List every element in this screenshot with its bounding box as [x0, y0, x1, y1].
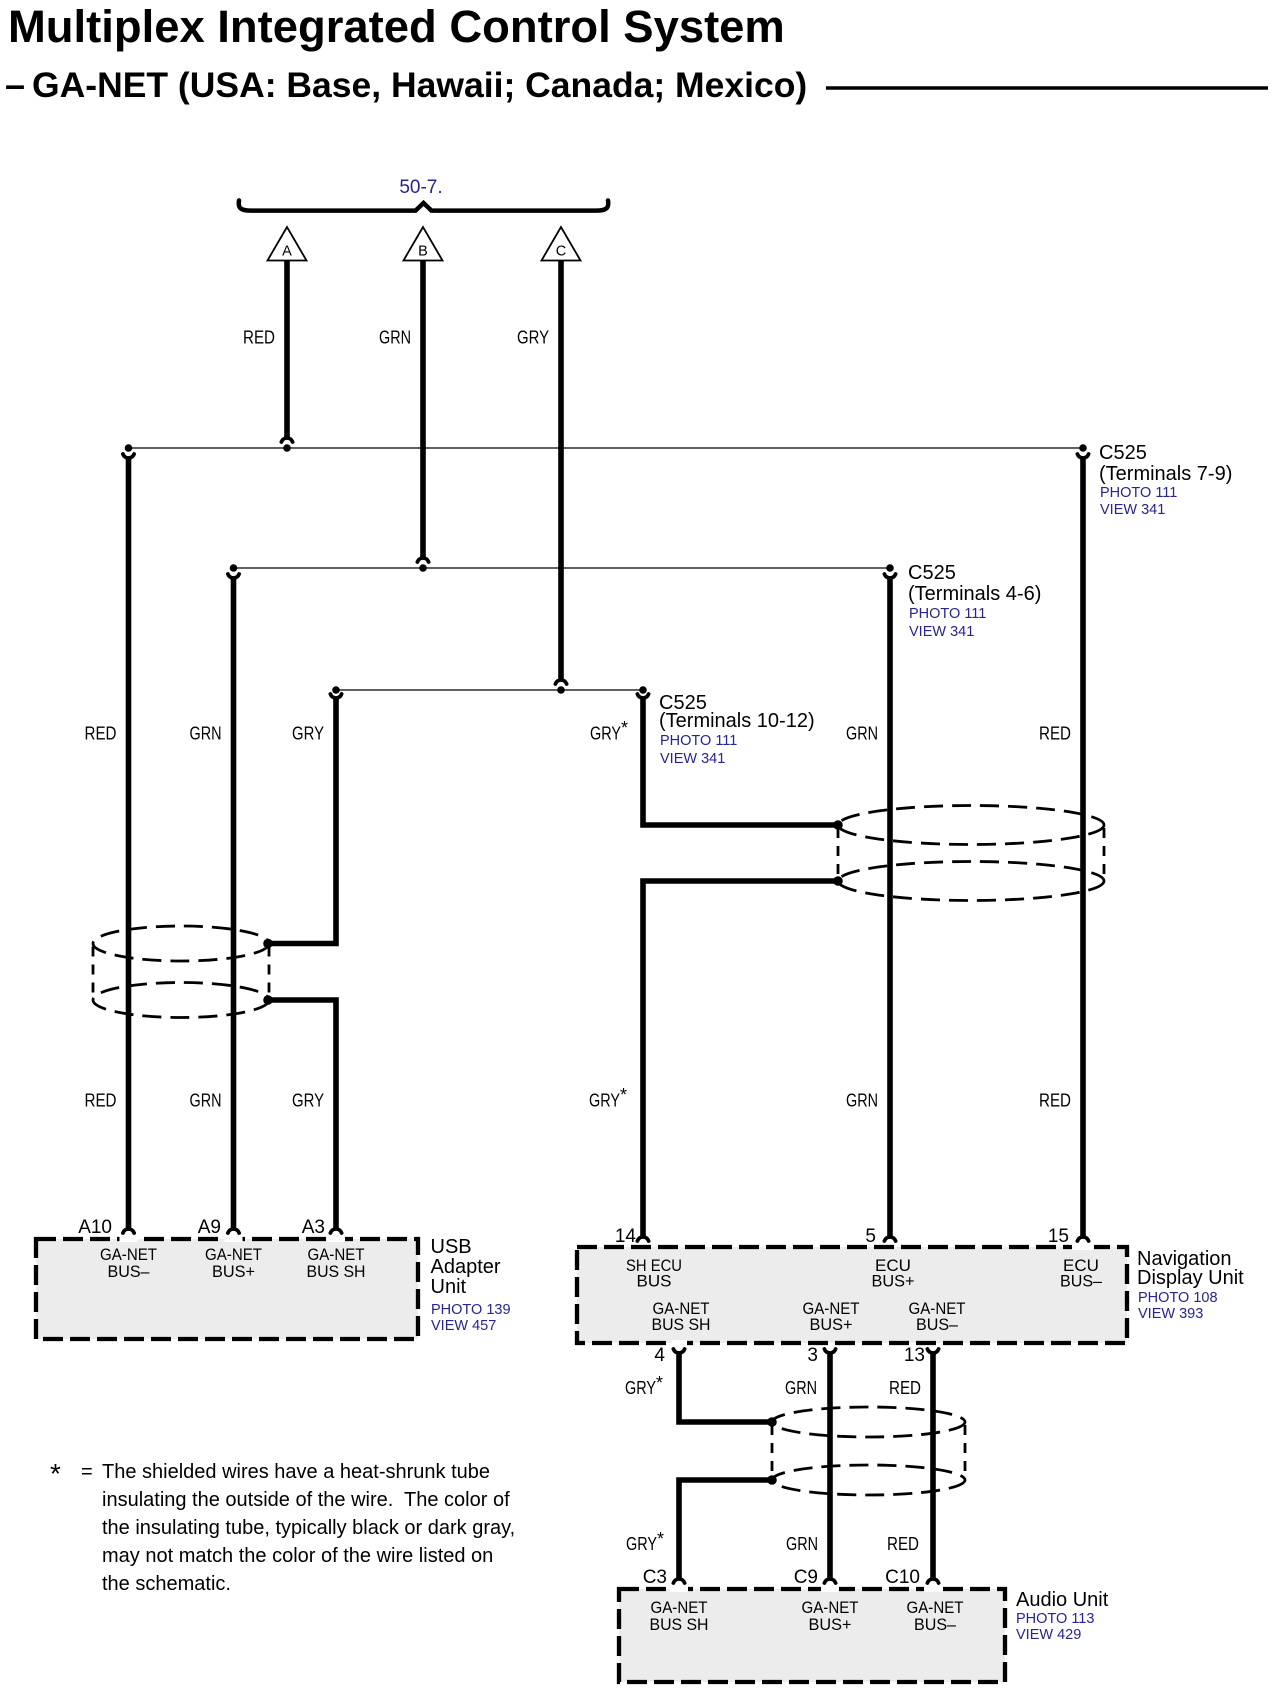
svg-text:*: * [656, 1373, 663, 1393]
audio unit pin C9 GA-NET BUS+ [802, 1598, 859, 1634]
wire GRN from connector B down to bus line 2 [417, 261, 428, 563]
svg-text:*: * [657, 1529, 664, 1549]
svg-text:Multiplex Integrated Control S: Multiplex Integrated Control System [8, 1, 785, 52]
svg-text:Adapter: Adapter [431, 1256, 501, 1278]
svg-text:(Terminals 7-9): (Terminals 7-9) [1099, 463, 1232, 485]
wire label GRN (lower right) [846, 1091, 878, 1111]
junction dot C on bus line 3 [557, 686, 565, 694]
pin A3 label [302, 1217, 325, 1238]
svg-text:VIEW 341: VIEW 341 [660, 751, 725, 767]
svg-text:C3: C3 [643, 1567, 667, 1588]
wire RED left from bus line 1 to USB adapter unit pin A10 [123, 454, 134, 1233]
pin 13 label [904, 1345, 925, 1366]
junction dot GRY* at right shield top [833, 820, 843, 830]
svg-text:RED: RED [1039, 1091, 1071, 1111]
svg-text:VIEW 393: VIEW 393 [1138, 1306, 1203, 1322]
wire label GRY (below triangle C) [517, 328, 549, 348]
svg-text:GRN: GRN [190, 724, 222, 744]
wire RED from navigation pin 13 to audio unit pin C10 [927, 1349, 938, 1583]
svg-text:PHOTO 111: PHOTO 111 [660, 733, 737, 749]
wire label GRN (lower left) [190, 1091, 222, 1111]
navigation display unit box [577, 1244, 1127, 1346]
svg-text:*: * [620, 1085, 627, 1105]
wire GRY* shielded from bus line 3 to right shield top [637, 694, 836, 825]
navigation pin 15 ECU BUS– [1060, 1256, 1103, 1291]
svg-text:(Terminals 4-6): (Terminals 4-6) [908, 583, 1041, 605]
junction dot GRY at left shield bottom [263, 995, 273, 1005]
svg-text:C525: C525 [908, 562, 956, 584]
svg-text:14: 14 [615, 1226, 637, 1247]
shield (heat-shrunk tube) around right GRN and RED wires [838, 806, 1104, 901]
connector triangle A [268, 227, 307, 261]
bus line 3 (C525 terminals 10-12) [336, 689, 643, 691]
wire GRY left from bus line 3 to left shield top [268, 694, 342, 944]
connector triangle C [542, 227, 581, 261]
svg-text:RED: RED [1039, 724, 1071, 744]
svg-text:13: 13 [904, 1345, 925, 1366]
svg-text:BUS–: BUS– [916, 1315, 959, 1334]
svg-text:C9: C9 [794, 1567, 818, 1588]
svg-text:GRN: GRN [846, 724, 878, 744]
svg-text:BUS+: BUS+ [810, 1315, 853, 1334]
svg-text:RED: RED [887, 1534, 919, 1554]
svg-text:BUS+: BUS+ [809, 1615, 852, 1634]
svg-text:BUS–: BUS– [914, 1615, 957, 1634]
wire label GRN (above audio unit) [786, 1534, 818, 1554]
junction dot A on bus line 1 [283, 444, 291, 452]
wire GRN from navigation pin 3 to audio unit pin C9 [824, 1349, 835, 1583]
svg-text:C: C [556, 244, 566, 260]
svg-text:GRY: GRY [292, 724, 324, 744]
navigation pin 3 GA-NET BUS+ [803, 1299, 860, 1334]
svg-text:A: A [282, 244, 292, 260]
pin C9 label [794, 1567, 818, 1588]
svg-text:Unit: Unit [431, 1276, 467, 1298]
wire GRY from connector C down to bus line 3 [555, 261, 566, 685]
svg-text:GA-NET (USA: Base, Hawaii; Can: GA-NET (USA: Base, Hawaii; Canada; Mexic… [32, 65, 807, 105]
svg-text:GRY: GRY [517, 328, 549, 348]
svg-text:A9: A9 [198, 1217, 221, 1238]
svg-text:GRY: GRY [589, 1091, 620, 1111]
wire label GRN (upper left) [190, 724, 222, 744]
svg-text:BUS–: BUS– [108, 1262, 151, 1281]
svg-text:PHOTO 111: PHOTO 111 [1100, 485, 1177, 501]
wire label RED (below triangle A) [243, 328, 275, 348]
svg-text:RED: RED [243, 328, 275, 348]
wire label GRY (lower left) [292, 1091, 324, 1111]
svg-text:GRN: GRN [846, 1091, 878, 1111]
svg-text:BUS SH: BUS SH [307, 1262, 366, 1281]
node right end of bus line 2 [886, 564, 894, 572]
node left end of bus line 1 [125, 444, 133, 452]
svg-text:GRY: GRY [590, 724, 621, 744]
wire GRY* from right shield bottom to navigation display unit pin 14 [637, 881, 838, 1241]
svg-text:VIEW 429: VIEW 429 [1016, 1627, 1081, 1643]
svg-text:PHOTO 111: PHOTO 111 [909, 606, 986, 622]
bus line 2 (C525 terminals 4-6) [234, 567, 891, 569]
svg-text:C525: C525 [1099, 442, 1147, 464]
node right end of bus line 1 [1079, 444, 1087, 452]
brace over connectors A B C [239, 201, 609, 211]
svg-text:=: = [81, 1461, 93, 1483]
svg-text:C10: C10 [885, 1567, 920, 1588]
svg-text:3: 3 [807, 1345, 818, 1366]
page reference label 50-7. [399, 177, 442, 198]
svg-text:*: * [621, 718, 628, 738]
wire label GRY* (upper right) [590, 718, 628, 744]
svg-text:4: 4 [654, 1345, 665, 1366]
wire label GRY* (above audio unit) [626, 1529, 664, 1554]
pin A10 label [78, 1217, 112, 1238]
junction dot GRY* at right shield bottom [833, 876, 843, 886]
svg-text:B: B [418, 244, 428, 260]
junction dot GRY at left shield top [263, 939, 273, 949]
audio unit pin C10 GA-NET BUS– [907, 1598, 964, 1634]
navigation pin 14 SH ECU BUS [626, 1256, 682, 1291]
wire label GRY (upper left) [292, 724, 324, 744]
svg-text:RED: RED [85, 724, 117, 744]
svg-text:The shielded wires have a heat: The shielded wires have a heat-shrunk tu… [102, 1461, 490, 1483]
junction dot GRY* at lower shield top [767, 1417, 777, 1427]
wire label GRN (below triangle B) [379, 328, 411, 348]
svg-text:BUS SH: BUS SH [650, 1615, 709, 1634]
svg-text:the schematic.: the schematic. [102, 1573, 231, 1595]
bus line 1 (C525 terminals 7-9) [129, 447, 1084, 449]
svg-text:RED: RED [85, 1091, 117, 1111]
svg-text:(Terminals 10-12): (Terminals 10-12) [659, 710, 815, 732]
wire GRY* from lower shield bottom to audio unit pin C3 [673, 1480, 772, 1583]
navigation pin 5 ECU BUS+ [872, 1256, 915, 1291]
svg-text:*: * [50, 1458, 61, 1489]
connector label C525 (Terminals 4-6) with PHOTO 111 VIEW 341 [908, 562, 1041, 640]
svg-text:A10: A10 [78, 1217, 112, 1238]
svg-text:GRN: GRN [785, 1378, 817, 1398]
shield (heat-shrunk tube) around left RED and GRN wires [93, 926, 269, 1018]
navigation display unit name label [1137, 1248, 1244, 1322]
svg-text:GRY: GRY [626, 1534, 657, 1554]
svg-text:VIEW 457: VIEW 457 [431, 1318, 496, 1334]
audio unit box [619, 1586, 1005, 1682]
subtitle: GA-NET (USA: Base, Hawaii; Canada; Mexico) [5, 64, 807, 105]
USB adapter unit box [36, 1236, 418, 1339]
shield (heat-shrunk tube) around lower GRN and RED wires [772, 1407, 965, 1495]
svg-text:VIEW 341: VIEW 341 [909, 624, 974, 640]
wire GRY from left shield bottom to USB adapter unit pin A3 [268, 1000, 342, 1233]
svg-text:RED: RED [889, 1378, 921, 1398]
svg-text:50-7.: 50-7. [399, 177, 442, 198]
svg-text:GRN: GRN [190, 1091, 222, 1111]
USB adapter unit pin A9 GA-NET BUS+ [205, 1245, 262, 1281]
svg-text:–: – [5, 64, 25, 105]
pin C10 label [885, 1567, 920, 1588]
connector label C525 (Terminals 7-9) with PHOTO 111 VIEW 341 [1099, 442, 1232, 518]
navigation pin 4 GA-NET BUS SH [652, 1299, 711, 1334]
svg-text:BUS+: BUS+ [212, 1262, 255, 1281]
svg-text:may not match the color of the: may not match the color of the wire list… [102, 1545, 493, 1567]
svg-text:GRN: GRN [786, 1534, 818, 1554]
audio unit name label [1016, 1589, 1109, 1643]
node right end of bus line 3 [639, 686, 647, 694]
pin 5 label [865, 1226, 876, 1247]
svg-text:PHOTO 139: PHOTO 139 [431, 1302, 511, 1318]
pin 4 label [654, 1345, 665, 1366]
USB adapter unit name label [431, 1236, 511, 1334]
wire label RED (above audio unit) [887, 1534, 919, 1554]
node left end of bus line 2 [230, 564, 238, 572]
svg-text:15: 15 [1048, 1226, 1069, 1247]
svg-text:the insulating tube, typically: the insulating tube, typically black or … [102, 1517, 515, 1539]
connector triangle B [404, 227, 443, 261]
wire label RED (lower left) [85, 1091, 117, 1111]
header rule line [826, 86, 1268, 89]
USB adapter unit pin A10 GA-NET BUS– [100, 1245, 157, 1281]
connector label C525 (Terminals 10-12) with PHOTO 111 VIEW 341 [659, 692, 815, 767]
pin 3 label [807, 1345, 818, 1366]
wire label GRY* (lower right) [589, 1085, 627, 1111]
junction dot B on bus line 2 [419, 564, 427, 572]
wire label RED (lower right) [1039, 1091, 1071, 1111]
svg-text:PHOTO 108: PHOTO 108 [1138, 1290, 1218, 1306]
svg-text:BUS+: BUS+ [872, 1272, 915, 1291]
svg-text:Display Unit: Display Unit [1137, 1267, 1244, 1289]
wire GRN right from bus line 2 to navigation display unit pin 5 [884, 574, 895, 1241]
wire label GRN (below navigation) [785, 1378, 817, 1398]
pin A9 label [198, 1217, 221, 1238]
svg-text:BUS: BUS [637, 1272, 672, 1291]
svg-text:BUS–: BUS– [1060, 1272, 1103, 1291]
svg-text:BUS SH: BUS SH [652, 1315, 711, 1334]
svg-text:GRY: GRY [625, 1378, 656, 1398]
wire label RED (upper right) [1039, 724, 1071, 744]
wire GRN left from bus line 2 to USB adapter unit pin A9 [228, 574, 239, 1233]
pin 14 label [615, 1226, 637, 1247]
svg-text:USB: USB [431, 1236, 472, 1258]
svg-text:A3: A3 [302, 1217, 325, 1238]
node left end of bus line 3 [332, 686, 340, 694]
wire RED from connector A down to bus line 1 [281, 261, 292, 443]
pin C3 label [643, 1567, 667, 1588]
svg-text:PHOTO 113: PHOTO 113 [1016, 1611, 1094, 1627]
footnote about shielded wire insulating tube color [50, 1458, 515, 1595]
wire label GRN (upper right) [846, 724, 878, 744]
wire label RED (upper left) [85, 724, 117, 744]
audio unit pin C3 GA-NET BUS SH [650, 1598, 709, 1634]
wire label RED (below navigation) [889, 1378, 921, 1398]
pin 15 label [1048, 1226, 1069, 1247]
junction dot GRY* at lower shield bottom [767, 1475, 777, 1485]
wire GRY* from navigation pin 4 to lower shield top [673, 1349, 770, 1422]
title: Multiplex Integrated Control System [8, 1, 785, 52]
svg-text:GRN: GRN [379, 328, 411, 348]
wire label GRY* (below navigation) [625, 1373, 663, 1398]
svg-text:Audio Unit: Audio Unit [1016, 1589, 1109, 1611]
wire RED right from bus line 1 to navigation display unit pin 15 [1077, 454, 1088, 1241]
svg-text:5: 5 [865, 1226, 876, 1247]
svg-text:insulating the outside of the: insulating the outside of the wire. The … [102, 1489, 510, 1511]
svg-text:GRY: GRY [292, 1091, 324, 1111]
navigation pin 13 GA-NET BUS– [909, 1299, 966, 1334]
svg-text:VIEW 341: VIEW 341 [1100, 502, 1165, 518]
USB adapter unit pin A3 GA-NET BUS SH [307, 1245, 366, 1281]
